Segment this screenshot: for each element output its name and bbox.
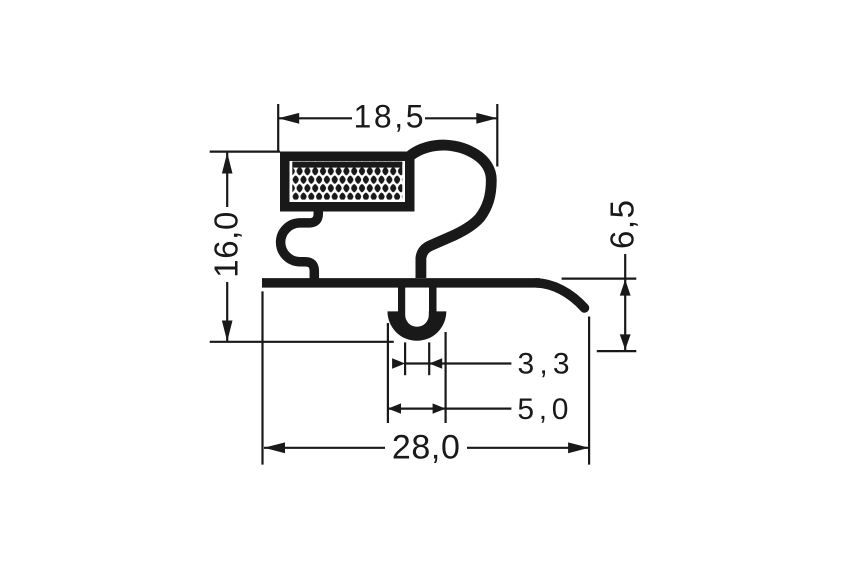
dim 5,0 right extension line [445, 332, 447, 423]
dim 16,0 up arrow [222, 153, 233, 174]
magnet crosshatch [292, 162, 402, 200]
left S-fold of profile [281, 207, 319, 280]
dim 16,0 down arrow [222, 321, 233, 342]
dim 6,5 up arrow [620, 280, 631, 296]
dim 18,5 right arrow [476, 113, 497, 124]
dim 16,0 line [226, 153, 228, 342]
balloon bulb of profile [411, 145, 492, 278]
dim 28,0 left extension line [261, 291, 263, 464]
dim 6,5 line [624, 254, 626, 350]
dim 6,5 bottom tick [597, 350, 637, 352]
svg-text:18,5: 18,5 [354, 98, 424, 134]
dim 28,0 right extension line [588, 317, 590, 465]
svg-text:5,0: 5,0 [517, 393, 568, 426]
dart neck left wall [398, 283, 406, 313]
dim 18,5 line [278, 117, 497, 119]
curved lip at right end of flange [536, 283, 585, 308]
dim 5,0 line [388, 408, 512, 410]
dim 28,0 line [264, 447, 589, 449]
svg-text:28,0: 28,0 [392, 429, 460, 467]
svg-text:6,5: 6,5 [604, 200, 641, 249]
dim 16,0 top extension line [210, 151, 280, 153]
dim 28,0 left arrow [264, 442, 285, 453]
dim 3,3 line [405, 362, 511, 364]
dim 18,5 left arrow [278, 113, 299, 124]
dim 6,5 down arrow [620, 334, 631, 350]
magnet pocket outer box [285, 156, 410, 207]
dart neck right wall [429, 283, 437, 313]
dim 16,0 bottom extension line [210, 341, 394, 343]
svg-text:16,0: 16,0 [208, 212, 245, 278]
dim 3,3 left tick [404, 342, 406, 375]
dim 18,5 right extension line [496, 104, 498, 167]
dim 3,3 right arrow [429, 358, 442, 368]
dim 3,3 left arrow [392, 358, 405, 368]
base flange line [262, 278, 540, 288]
dim 28,0 right arrow [568, 442, 589, 453]
dim 5,0 left arrow [388, 403, 401, 413]
dim 3,3 right tick [428, 342, 430, 375]
dim 5,0 left extension line [387, 323, 389, 423]
dart slot (white channel) [405, 288, 429, 327]
dim 18,5 left extension line [277, 104, 279, 151]
dart bell (barb) [388, 311, 447, 340]
dim 5,0 right arrow [433, 403, 446, 413]
svg-text:3,3: 3,3 [518, 347, 570, 380]
dim 6,5 top extension line [562, 278, 637, 280]
